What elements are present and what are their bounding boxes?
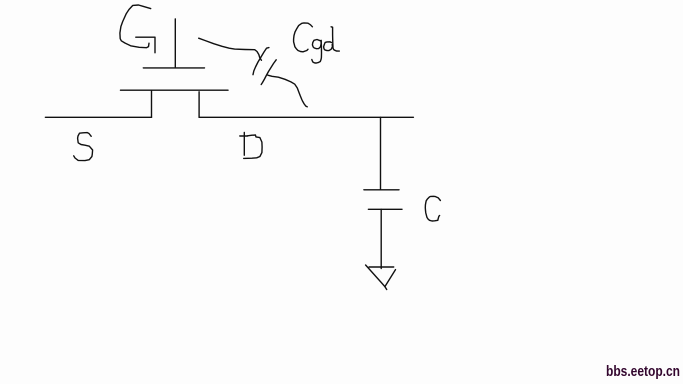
transistor M1 channel bar — [121, 89, 229, 91]
wire source stub — [151, 90, 153, 117]
capacitor C1 bottom plate — [368, 208, 402, 210]
annotation leader from gate (Cgd pointer upper squiggle) — [199, 38, 262, 60]
transistor M1 gate plate — [143, 67, 204, 69]
wire capacitor bottom lead — [380, 209, 382, 268]
capacitor C1 top plate — [364, 189, 399, 191]
watermark bbs.eetop.cn — [606, 363, 683, 380]
ground — [366, 265, 396, 290]
node D label (drain) — [240, 132, 262, 158]
break mark slash 2 — [261, 60, 276, 85]
wire drain lead — [199, 116, 413, 118]
annotation leader to drain (Cgd pointer lower squiggle) — [268, 75, 307, 107]
node S label (source) — [74, 133, 93, 161]
break mark slash 1 — [253, 48, 269, 75]
wire drain stub — [198, 92, 200, 118]
label C (capacitor value) — [425, 196, 440, 221]
wire capacitor top lead — [380, 117, 382, 189]
label Cgd — [294, 23, 340, 63]
node G label (gate) — [120, 5, 155, 53]
wire source lead — [45, 116, 151, 118]
wire gate lead — [174, 19, 176, 67]
